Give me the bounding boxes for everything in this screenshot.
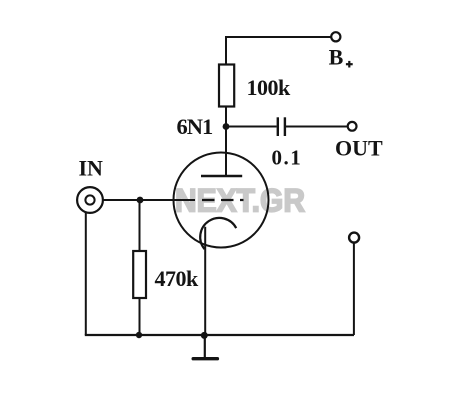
svg-text:0.1: 0.1 <box>272 145 303 169</box>
wire: IN terminal to grid <box>103 199 195 201</box>
ground bar <box>193 357 217 360</box>
capacitor C1 0.1 <box>278 117 285 136</box>
svg-text:470k: 470k <box>155 266 200 291</box>
svg-text:IN: IN <box>79 156 104 181</box>
terminal B+ <box>331 32 340 41</box>
wire: right terminal down to rail <box>353 243 355 335</box>
resistor R1 100k <box>219 65 234 107</box>
wire: R2 bottom to rail <box>139 298 141 335</box>
node: R2 bottom junction dot <box>136 332 142 338</box>
resistor R2 470k <box>133 251 146 298</box>
wire: IN terminal down left side <box>85 213 87 336</box>
grid (dashed control grid) <box>202 199 244 201</box>
cathode hook <box>200 218 236 249</box>
tube envelope U1 <box>174 153 269 248</box>
terminal ground/common <box>349 233 359 243</box>
node: plate junction dot <box>223 123 230 130</box>
svg-text:OUT: OUT <box>335 135 383 160</box>
plate bar (anode) <box>201 175 242 178</box>
wire: junction to capacitor <box>226 126 277 128</box>
wire: resistor bottom to plate bar (plate lead) <box>225 107 227 176</box>
wire: top rail from resistor to B+ terminal <box>226 37 331 65</box>
wire: bottom rail <box>85 334 354 336</box>
terminal OUT <box>348 122 357 131</box>
svg-text:6N1: 6N1 <box>177 114 213 139</box>
cathode lead wire <box>204 227 206 335</box>
ground stem <box>204 335 206 358</box>
svg-text:100k: 100k <box>247 75 292 100</box>
node: cathode/ground junction dot <box>201 332 208 339</box>
wire: junction down to R2 <box>139 200 141 251</box>
svg-text:B: B <box>329 44 344 69</box>
node: input junction dot <box>137 197 144 204</box>
wire: capacitor to OUT terminal <box>286 126 348 128</box>
terminal IN (coax jack) <box>77 187 103 213</box>
